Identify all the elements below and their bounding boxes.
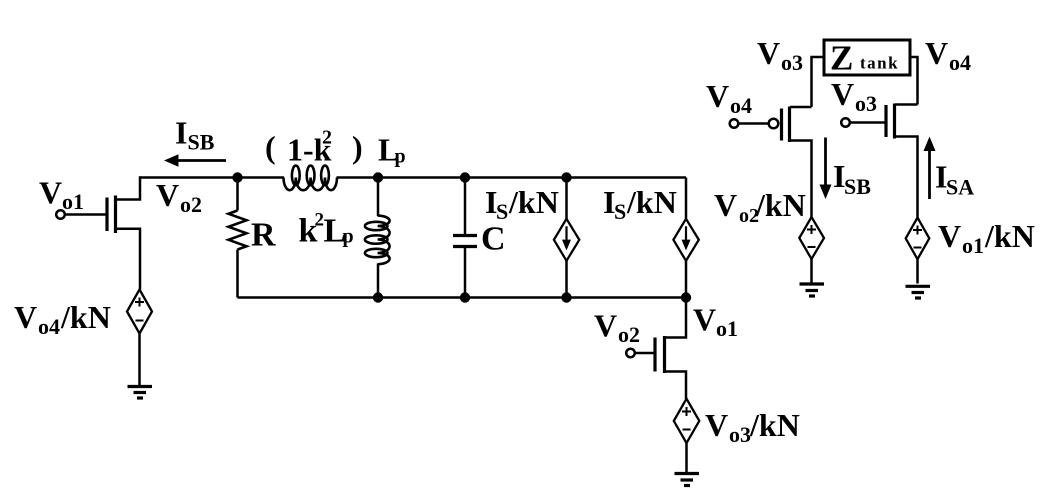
inductor L1 loop ellipses — [292, 166, 329, 186]
E2 plus sign — [682, 407, 691, 416]
svg-text:V: V — [705, 407, 728, 443]
svg-text:o2: o2 — [618, 322, 640, 347]
svg-text:o1: o1 — [962, 233, 984, 258]
F1 arrow — [565, 226, 567, 242]
svg-text:): ) — [352, 129, 363, 165]
wire M1 source down — [116, 229, 140, 290]
wire M4 gate lead — [850, 121, 885, 124]
E1 minus sign — [136, 320, 144, 322]
node dot C top of cap — [460, 172, 470, 182]
svg-text:p: p — [395, 146, 406, 168]
transistor M2 — [655, 336, 665, 373]
svg-text:V: V — [693, 302, 716, 338]
node dot D top of source1 — [561, 172, 571, 182]
transistor M3 gate port circle — [730, 119, 739, 128]
capacitor C plates — [453, 236, 477, 247]
svg-text:o3: o3 — [781, 50, 803, 75]
arrow ISB right section — [824, 138, 827, 189]
current source F1 diamond — [554, 219, 579, 261]
dependent source E3 V_o2/kN diamond — [799, 217, 824, 259]
svg-text:o1: o1 — [62, 189, 84, 214]
Z_tank box — [824, 40, 910, 75]
svg-text:o4: o4 — [38, 314, 60, 339]
svg-text:V: V — [39, 175, 62, 211]
svg-text:SA: SA — [946, 175, 974, 200]
svg-text:C: C — [481, 221, 506, 258]
svg-text:I: I — [175, 115, 187, 151]
dependent source E1 V_o4/kN diamond — [127, 290, 152, 334]
svg-text:V: V — [938, 218, 961, 254]
wire box left stub down to M3 drain — [812, 57, 825, 107]
transistor M1 gate port circle — [56, 210, 65, 219]
wire bottom rail — [238, 296, 687, 299]
transistor M4 gate port circle — [841, 118, 850, 127]
svg-text:/kN: /kN — [984, 218, 1035, 254]
svg-text:/kN: /kN — [626, 184, 677, 220]
svg-text:p: p — [343, 226, 354, 248]
dependent source E2 V_o3/kN diamond — [674, 399, 700, 443]
wire M1 gate lead — [65, 213, 106, 216]
svg-text:SB: SB — [188, 130, 215, 155]
transistor M4 — [886, 104, 895, 139]
svg-text:/kN: /kN — [60, 299, 111, 335]
ground G2 — [675, 474, 700, 486]
node dot A top-left — [232, 172, 242, 182]
wire E1 to ground — [138, 334, 141, 387]
svg-text:o3: o3 — [855, 91, 877, 116]
arrow ISA up — [928, 149, 931, 199]
wire top rail right segment — [337, 176, 687, 179]
E3 plus sign — [807, 225, 816, 234]
inductor L2 k2Lp wires — [377, 178, 380, 217]
wire F2 bottom — [685, 261, 688, 298]
current source F1 IS/kN wires — [565, 178, 568, 219]
wire node H down to M2 drain — [666, 298, 686, 338]
svg-text:V: V — [831, 76, 854, 112]
wire M2 gate lead — [635, 352, 654, 355]
E1 plus sign — [135, 298, 144, 307]
E4 minus sign — [914, 247, 922, 249]
dependent source E4 V_o1/kN diamond — [906, 218, 930, 260]
current source F2 IS/kN diamond — [673, 219, 698, 261]
svg-text:Z: Z — [830, 39, 853, 78]
wire M3 source down — [790, 141, 812, 218]
inductor L2 loop ellipses — [365, 222, 388, 257]
wire E3 to ground — [810, 259, 813, 284]
svg-text:V: V — [706, 78, 729, 114]
E4 plus sign — [913, 226, 922, 235]
wire M2 source down — [666, 372, 686, 399]
ground G3 — [800, 284, 825, 296]
resistor R zigzag — [229, 211, 247, 250]
E2 minus sign — [683, 429, 691, 431]
transistor M3 — [782, 107, 790, 143]
inductor L1 (1-k2)Lp coil bowls — [284, 178, 338, 191]
capacitor C wires — [464, 178, 467, 236]
svg-text:V: V — [925, 35, 948, 71]
resistor R wires — [236, 178, 239, 211]
svg-text:(: ( — [265, 129, 276, 165]
svg-text:/kN: /kN — [749, 407, 800, 443]
node dot G bottom of F1 — [561, 292, 571, 302]
svg-text:V: V — [594, 308, 617, 344]
wire M3 drain up — [790, 106, 812, 109]
svg-text:o1: o1 — [716, 316, 738, 341]
wire M4 source down — [895, 137, 918, 218]
svg-text:tank: tank — [860, 54, 899, 73]
transistor M3 PMOS bubble — [769, 119, 779, 129]
svg-text:SB: SB — [844, 174, 871, 199]
svg-text:/kN: /kN — [508, 184, 559, 220]
E3 minus sign — [808, 246, 816, 248]
transistor M2 gate port circle — [626, 349, 635, 358]
wire M4 drain up — [895, 103, 918, 106]
node dot B top of L2 — [373, 172, 383, 182]
wire M3 gate lead — [739, 122, 769, 125]
svg-text:R: R — [251, 217, 276, 254]
wire top rail left segment — [140, 176, 284, 179]
wire E2 to ground — [685, 443, 688, 473]
ground G4 — [906, 286, 931, 298]
node dot F bottom of cap — [460, 292, 470, 302]
F2 arrow — [685, 226, 687, 242]
svg-text:o3: o3 — [729, 422, 751, 447]
svg-text:V: V — [14, 299, 37, 335]
svg-text:S: S — [614, 199, 626, 224]
transistor M1 — [107, 196, 116, 234]
arrow ISB left (current direction) — [176, 159, 226, 162]
svg-text:V: V — [714, 187, 737, 223]
svg-text:V: V — [757, 35, 780, 71]
inductor L2 coil bowls — [378, 216, 390, 265]
node dot E bottom of L2 — [373, 292, 383, 302]
wire E4 to ground — [916, 259, 919, 283]
ground G1 — [128, 387, 153, 399]
svg-text:o4: o4 — [730, 93, 752, 118]
svg-text:V: V — [156, 177, 179, 213]
svg-text:o4: o4 — [949, 50, 971, 75]
node dot H Vo1 node — [681, 292, 691, 302]
wire M1 drain to top rail — [116, 176, 140, 199]
wire top rail corner down to F2 — [685, 178, 688, 219]
wire box right stub down to M4 drain — [910, 57, 918, 105]
svg-text:S: S — [496, 199, 508, 224]
svg-text:/kN: /kN — [755, 187, 806, 223]
svg-text:2: 2 — [322, 127, 332, 149]
svg-text:o2: o2 — [180, 192, 202, 217]
